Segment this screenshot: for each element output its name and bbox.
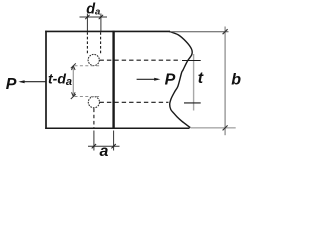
svg-text:da: da [86, 2, 100, 18]
ticks a [92, 144, 116, 148]
dimension a: extension lines below plate [93, 131, 95, 151]
dimension t: dim line (grey) [193, 54, 195, 111]
centre line of lower hole (dashed, to the right) [100, 101, 169, 103]
force arrow right [137, 78, 158, 80]
plate bottom edge [45, 127, 189, 129]
force arrow left [21, 81, 46, 83]
svg-text:t-da: t-da [48, 71, 72, 89]
svg-text:t: t [198, 70, 204, 87]
svg-text:P: P [6, 76, 17, 93]
centre line of lower hole (dashed, below to bottom edge) [93, 109, 95, 129]
ticks da [85, 15, 103, 19]
hole H2 (lower) [88, 97, 99, 108]
break line (wavy cut edge) [169, 31, 192, 127]
dashed tangent connector lower (top of hole H2) [75, 96, 101, 98]
svg-text:b: b [231, 72, 241, 89]
dimension line b (grey) [224, 27, 226, 136]
plate left edge [45, 31, 47, 129]
svg-text:P: P [165, 72, 176, 89]
tick bar t upper [182, 60, 201, 62]
dimension line a [88, 145, 120, 147]
tick bar t lower [184, 102, 201, 104]
plate thick right edge (front plate end) [112, 31, 114, 129]
hidden hole edge line (left, dashed, inside plate) [86, 32, 88, 54]
ticks b [223, 29, 228, 130]
svg-text:a: a [100, 143, 109, 159]
hidden hole edge line (right, dashed, inside plate) [100, 32, 102, 54]
dimension line da [80, 16, 108, 18]
hole H1 (upper) [88, 54, 99, 65]
dashed tangent connector upper (bottom of hole H1) [75, 65, 101, 67]
dimension line t-da (vertical with arrows) [72, 66, 74, 97]
centre line of upper hole (dashed, to the right) [100, 59, 182, 61]
dimension b: extension line top (grey) [170, 31, 229, 33]
dimension da: extension lines above plate [86, 14, 88, 32]
extension line bottom (grey) [191, 127, 236, 129]
plate top edge [45, 30, 170, 32]
